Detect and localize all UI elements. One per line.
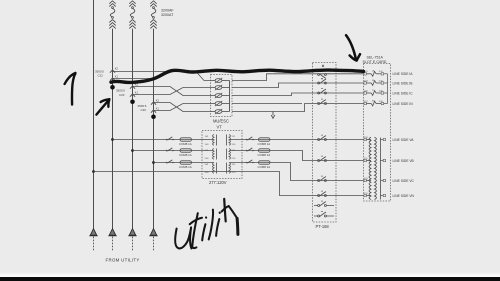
fuse C feed — [180, 161, 192, 164]
junction dot below CT B — [130, 100, 135, 105]
fuse VC sec — [259, 161, 271, 164]
test switch element VN — [318, 195, 320, 197]
voltage transformer VT dashed box — [202, 131, 242, 179]
annotation: hand arrow 2 (pointing up-right at CT A) — [96, 99, 109, 114]
shorting block common bus — [229, 81, 231, 112]
test switch element VB — [318, 160, 320, 162]
CT C polarity ticks on bus — [151, 102, 156, 105]
fuse VA sec — [259, 138, 271, 141]
VT secondary winding 2 — [229, 149, 230, 160]
wire: VB secondary row (step down) — [230, 151, 364, 161]
card voltage input winding column (right) — [375, 137, 377, 199]
shorting element row 2 — [211, 87, 216, 89]
dashed feeder tail below arrow x=112.5 — [112, 237, 114, 251]
VT secondary winding 1 — [229, 135, 230, 146]
card voltage input VB tap — [364, 159, 366, 161]
card voltage input VA tap — [364, 138, 366, 140]
VT primary winding 3 — [213, 163, 214, 174]
wire: VA secondary row — [230, 139, 364, 141]
svg-text:LINE SIDE IA: LINE SIDE IA — [393, 72, 414, 76]
card current input IA — [364, 73, 366, 75]
ground stub + arrow at CT common — [272, 112, 274, 116]
test switch element IN — [318, 103, 320, 105]
wire: IN circuit to card (staircase) — [232, 104, 364, 112]
svg-text:LINE SIDE VB: LINE SIDE VB — [393, 159, 415, 163]
CT B polarity ticks on bus — [130, 86, 135, 89]
svg-text:FROM UTILITY: FROM UTILITY — [106, 257, 140, 262]
wire: phase A VT feed — [113, 139, 214, 141]
svg-text:LINE SIDE VN: LINE SIDE VN — [393, 194, 415, 198]
wire: phase B VT feed — [133, 150, 214, 152]
shorting element row 4 — [211, 103, 216, 105]
switch VB sec — [246, 150, 248, 152]
annotation: handwritten word Utility — [175, 199, 238, 249]
card current input IB — [364, 82, 366, 84]
svg-text:COM8 1A: COM8 1A — [179, 142, 192, 146]
svg-text:MU/ESC: MU/ESC — [213, 119, 229, 124]
switch VA sec — [246, 139, 248, 141]
junction dot phase B VT tap — [131, 149, 134, 152]
wire: IB circuit to card (staircase) — [232, 83, 364, 88]
test switch element IC — [318, 92, 320, 94]
annotation: hand arrow 3 (curved, pointing at card) — [346, 35, 360, 60]
card voltage input right-side bus — [380, 138, 382, 200]
junction dot neutral common — [92, 170, 95, 173]
VT primary winding 2 — [213, 149, 214, 160]
test switch element IA — [318, 74, 320, 76]
relay card SEL-751A slot E dashed box — [364, 64, 391, 202]
wire: CT B pair with transposition cross — [133, 87, 211, 96]
card voltage input VC tap — [364, 179, 366, 181]
fuse B feed — [180, 149, 192, 152]
junction dot below CT C — [151, 115, 156, 120]
breaker contact circles and curve on bus x=153.5 — [153, 7, 155, 9]
test switch element VC — [318, 180, 320, 182]
annotation: thick traced line over IA circuit — [111, 70, 364, 82]
test switch orientation mark — [322, 64, 324, 66]
dashed feeder tail below arrow x=132.5 — [132, 237, 134, 251]
disconnect switch C feed — [166, 162, 168, 164]
test switch PT-168 dashed box — [313, 63, 337, 223]
wire: CT A K1 lead (under annotation) — [113, 78, 153, 80]
disconnect switch B feed — [166, 150, 168, 152]
wire: CT C pair with transposition cross — [154, 103, 211, 112]
wire: phase B bus vertical — [132, 29, 134, 229]
card voltage input winding column (left) — [369, 137, 371, 199]
card current input common bus — [387, 74, 389, 104]
svg-text:COM8 1A: COM8 1A — [258, 165, 271, 169]
card voltage input VN tap — [364, 194, 366, 196]
wire: spare shorting row stub — [232, 103, 302, 105]
incoming-feed arrowhead on bus x=132.5 — [129, 229, 135, 236]
wire: CT A K2 lead to shorting block row1 — [113, 72, 211, 81]
VT primary winding 1 — [213, 135, 214, 146]
test switch element VA — [318, 139, 320, 141]
VT secondary winding 3 — [229, 163, 230, 174]
svg-text:3200AT: 3200AT — [161, 13, 174, 17]
incoming-feed arrowhead on bus x=93.5 — [90, 229, 96, 236]
svg-text:LINE SIDE IN: LINE SIDE IN — [393, 102, 414, 106]
svg-text:LINE SIDE VA: LINE SIDE VA — [393, 138, 415, 142]
svg-text:LINE SIDE IC: LINE SIDE IC — [393, 91, 414, 95]
dashed feeder tail below arrow x=153.5 — [153, 237, 155, 251]
test switch element spare1 — [318, 205, 320, 207]
breaker contact circles and curve on bus x=132.5 — [132, 7, 134, 9]
breaker drawout chevrons (top) on bus x=153.5 — [150, 1, 156, 4]
wire: neutral bus N vertical — [93, 0, 95, 228]
svg-text:COM8 1A: COM8 1A — [258, 142, 271, 146]
shorting block MU/ESC dashed box — [211, 75, 233, 117]
wire: IC circuit to card (staircase) — [232, 93, 364, 96]
disconnect switch A feed — [166, 139, 168, 141]
shorting element row 5 — [211, 111, 216, 113]
fuse VB sec — [259, 149, 271, 152]
svg-text:277:120V: 277:120V — [209, 180, 227, 185]
wire: phase C bus vertical — [153, 29, 155, 229]
incoming-feed arrowhead on bus x=153.5 — [150, 229, 156, 236]
breaker drawout chevrons (top) on bus x=132.5 — [129, 1, 135, 4]
fuse A feed — [180, 138, 192, 141]
shorting element row 1 — [211, 80, 216, 82]
CT A polarity ticks on bus — [110, 70, 115, 73]
svg-text:COM8 1A: COM8 1A — [258, 153, 271, 157]
test switch element IB — [318, 82, 320, 84]
svg-text:C22: C22 — [98, 74, 104, 78]
wire: VT common / VN run to test switch and card — [94, 172, 364, 196]
test switch element spare2 — [318, 215, 320, 217]
black letterbox bar — [0, 277, 500, 281]
junction dot phase A VT tap — [111, 138, 114, 141]
breaker drawout chevrons (bottom) on bus x=153.5 — [150, 20, 156, 23]
card current input IN — [364, 102, 366, 104]
breaker drawout chevrons (top) on bus x=112.5 — [109, 1, 115, 4]
breaker drawout chevrons (bottom) on bus x=132.5 — [129, 20, 135, 23]
junction dot below CT A — [110, 85, 115, 90]
svg-text:LINE SIDE IB: LINE SIDE IB — [393, 81, 414, 85]
svg-text:K2: K2 — [115, 67, 119, 71]
wire: phase A bus vertical — [112, 29, 114, 229]
annotation: hand arrow 1 (left, pointing up) — [65, 73, 76, 105]
card current input IC — [364, 92, 366, 94]
shorting element row 3 — [211, 95, 216, 97]
svg-text:C20: C20 — [141, 108, 147, 112]
svg-text:COM8 1A: COM8 1A — [179, 153, 192, 157]
wire: IA circuit to card (staircase) — [232, 74, 364, 81]
svg-text:3200AF: 3200AF — [161, 8, 174, 12]
wire: VC secondary row (step down) — [230, 163, 364, 181]
switch VC sec — [246, 162, 248, 164]
svg-text:C20: C20 — [119, 93, 125, 97]
svg-text:VT: VT — [217, 125, 223, 130]
wire: spare test switch stubs — [314, 205, 334, 207]
breaker contact circles and curve on bus x=112.5 — [112, 7, 114, 9]
svg-text:LINE SIDE VC: LINE SIDE VC — [393, 179, 415, 183]
breaker drawout chevrons (bottom) on bus x=112.5 — [109, 20, 115, 23]
svg-text:SEL-751A: SEL-751A — [367, 56, 384, 60]
svg-text:COM8 1A: COM8 1A — [179, 165, 192, 169]
incoming-feed arrowhead on bus x=112.5 — [109, 229, 115, 236]
wire: phase C VT feed — [154, 162, 214, 164]
dashed feeder tail below arrow x=93.5 — [93, 237, 95, 251]
svg-text:PT-168: PT-168 — [316, 224, 330, 229]
junction dot phase C VT tap — [152, 161, 155, 164]
